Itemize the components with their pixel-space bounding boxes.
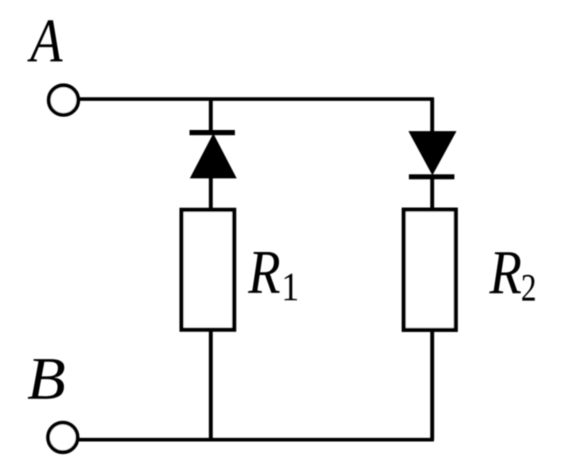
node B label: [28, 359, 65, 399]
wire right branch R2 to bottom wire: [430, 328, 434, 440]
resistor R2 body: [404, 210, 456, 330]
diode D2 cathode bar: [409, 174, 455, 179]
diode D2 triangle (pointing down): [408, 131, 456, 175]
wire left branch upper (top wire to D1): [209, 99, 213, 134]
diode D1 triangle (pointing up): [190, 133, 237, 178]
resistor R1 body: [182, 210, 235, 330]
wire right branch D2 to R2: [430, 175, 434, 211]
wire right branch upper (top wire to D2): [430, 98, 434, 133]
resistor R1 label (R): [248, 252, 280, 293]
terminal A: [49, 85, 79, 115]
resistor R1 label (subscript 1): [285, 274, 297, 301]
wire top horizontal (A to right branch): [79, 97, 434, 101]
resistor R2 label (subscript 2): [522, 275, 535, 301]
resistor R2 label (R): [489, 252, 521, 293]
wire bottom horizontal (B to right branch): [78, 438, 434, 442]
wire left branch R1 to bottom wire: [209, 328, 213, 440]
node A label: [27, 20, 62, 61]
wire left branch D1 to R1: [209, 176, 213, 211]
terminal B: [48, 423, 78, 453]
diode D1 cathode bar: [190, 130, 235, 135]
